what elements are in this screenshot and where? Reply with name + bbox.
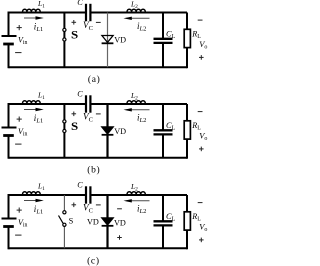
wire CL branch top xyxy=(162,195,164,221)
label + below diode xyxy=(117,237,122,239)
wire switch branch top xyxy=(63,104,65,120)
inductor L2 xyxy=(127,9,145,12)
wire bottom rail xyxy=(9,157,188,159)
battery - label xyxy=(15,52,21,54)
label - of output xyxy=(198,202,203,204)
svg-text:C: C xyxy=(77,0,83,7)
current arrow iL2 xyxy=(130,200,149,202)
inductor L1 xyxy=(23,101,41,104)
wire RL branch top xyxy=(186,195,188,212)
switch terminal circle top xyxy=(63,120,66,123)
current arrow iL1 xyxy=(24,17,37,19)
label - above diode xyxy=(117,208,122,210)
circuit (a): S closed, VD off xyxy=(2,0,208,68)
battery Vin long plate xyxy=(2,35,17,37)
wire left branch top xyxy=(8,12,10,37)
svg-text:(b): (b) xyxy=(87,164,100,175)
wire RL branch top xyxy=(186,104,188,121)
label - of VC xyxy=(96,21,101,23)
switch S closed blade xyxy=(63,121,65,131)
inductor L1 xyxy=(23,192,41,195)
wire bottom rail xyxy=(9,66,188,68)
current arrow iL2 xyxy=(130,109,149,111)
capacitor C right plate xyxy=(89,4,91,21)
svg-text:VD: VD xyxy=(114,127,126,136)
svg-text:VD: VD xyxy=(114,219,126,228)
circuit (c): S open, VD on xyxy=(2,180,208,249)
inductor L2 xyxy=(127,192,145,195)
svg-text:(a): (a) xyxy=(88,74,101,85)
wire RL branch bottom xyxy=(186,48,188,69)
wire diode branch bottom xyxy=(106,135,108,158)
capacitor CL bottom plate xyxy=(154,224,173,226)
diode VD cathode bar xyxy=(102,42,114,44)
label + of output xyxy=(199,148,204,150)
battery + label xyxy=(17,118,22,120)
capacitor CL top plate xyxy=(154,220,173,222)
wire top rail right segment xyxy=(90,103,187,105)
wire CL branch top xyxy=(162,104,164,130)
capacitor C left plate xyxy=(85,95,87,112)
wire switch branch bottom xyxy=(63,133,65,158)
battery + label xyxy=(17,27,22,29)
capacitor CL top plate xyxy=(154,38,173,40)
diode VD hollow triangle xyxy=(102,36,113,43)
wire switch branch top xyxy=(63,13,65,29)
switch terminal circle bottom xyxy=(63,223,66,226)
svg-text:(c): (c) xyxy=(87,255,100,266)
battery Vin short plate xyxy=(3,134,14,137)
svg-text:S: S xyxy=(69,217,74,226)
wire left branch top xyxy=(8,194,10,219)
diode VD solid triangle xyxy=(102,127,113,134)
wire RL branch top xyxy=(186,13,188,30)
current arrow iL1 xyxy=(24,109,37,111)
battery Vin short plate xyxy=(3,225,14,228)
wire top rail right segment xyxy=(90,194,187,196)
wire left branch bottom xyxy=(8,44,10,68)
label + of VC xyxy=(72,113,77,115)
label - of output xyxy=(198,111,203,113)
wire diode branch xyxy=(107,13,109,68)
switch terminal circle top xyxy=(63,211,66,214)
wire left branch bottom xyxy=(8,136,10,159)
wire top rail right segment xyxy=(90,12,187,14)
capacitor C left plate xyxy=(85,4,87,21)
battery Vin long plate xyxy=(2,218,17,220)
wire left branch bottom xyxy=(8,227,10,250)
wire CL branch top xyxy=(162,13,164,39)
battery - label xyxy=(15,143,21,145)
label + of VC xyxy=(72,204,77,206)
capacitor CL bottom plate xyxy=(154,42,173,44)
label + of output xyxy=(199,56,204,58)
current arrow iL1 xyxy=(24,200,37,202)
wire diode branch top xyxy=(106,104,108,127)
wire bottom rail xyxy=(9,247,188,249)
wire top rail left segment xyxy=(9,194,87,196)
wire RL branch bottom xyxy=(186,230,188,249)
battery Vin short plate xyxy=(3,43,14,46)
switch S closed blade xyxy=(63,30,65,40)
svg-text:S: S xyxy=(71,30,78,42)
capacitor C right plate xyxy=(89,95,91,112)
wire switch branch top xyxy=(63,195,65,211)
label - of VC xyxy=(96,113,101,115)
wire diode branch top xyxy=(106,195,108,218)
wire CL branch bottom xyxy=(162,134,164,157)
label - of VC xyxy=(96,204,101,206)
wire left branch top xyxy=(8,103,10,128)
svg-text:VD: VD xyxy=(114,35,126,44)
wire CL branch bottom xyxy=(162,43,164,67)
wire RL branch bottom xyxy=(186,139,188,159)
wire top rail left segment xyxy=(9,12,87,14)
battery + label xyxy=(17,209,22,211)
svg-text:C: C xyxy=(77,180,83,189)
wire CL branch bottom xyxy=(162,225,164,248)
switch terminal circle bottom xyxy=(63,38,66,41)
resistor RL box xyxy=(184,29,190,47)
wire switch branch bottom xyxy=(63,227,65,249)
capacitor C left plate xyxy=(85,186,87,203)
label + of VC xyxy=(72,21,77,23)
capacitor C right plate xyxy=(89,186,91,203)
inductor L1 xyxy=(23,9,41,12)
wire top rail left segment xyxy=(9,103,87,105)
capacitor CL bottom plate xyxy=(154,133,173,135)
switch terminal circle top xyxy=(63,28,66,31)
circuit (b): S closed, VD on xyxy=(2,89,208,158)
capacitor CL top plate xyxy=(154,129,173,131)
svg-text:C: C xyxy=(77,89,83,98)
resistor RL box xyxy=(184,212,190,230)
label + of output xyxy=(199,239,204,241)
svg-text:VD: VD xyxy=(87,217,99,226)
diode VD cathode bar xyxy=(102,134,114,136)
wire diode branch bottom xyxy=(106,226,108,249)
diode VD solid triangle xyxy=(102,218,113,225)
switch S open blade xyxy=(59,216,64,224)
label - of output xyxy=(198,19,203,21)
current arrow iL2 xyxy=(130,17,149,19)
battery - label xyxy=(15,234,21,236)
wire switch branch bottom xyxy=(63,41,65,67)
resistor RL box xyxy=(184,121,190,139)
diode VD cathode bar xyxy=(102,225,114,227)
battery Vin long plate xyxy=(2,127,17,129)
svg-text:S: S xyxy=(71,121,78,133)
inductor L2 xyxy=(127,101,145,104)
switch terminal circle bottom xyxy=(63,129,66,132)
